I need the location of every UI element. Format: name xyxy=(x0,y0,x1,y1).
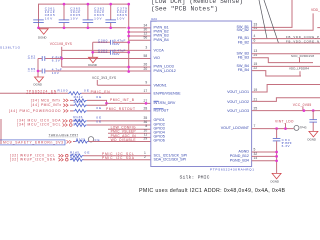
svg-text:27: 27 xyxy=(144,99,148,103)
svg-text:U24: U24 xyxy=(151,17,157,21)
wire SW_B2 out xyxy=(252,13,314,30)
wire bottom ground rail xyxy=(39,27,127,29)
svg-text:26: 26 xyxy=(144,62,148,66)
pin 17 EN/PB/VSENSE xyxy=(144,89,182,95)
svg-text:EN/PB/VSENSE: EN/PB/VSENSE xyxy=(154,92,182,96)
wire SW_B4 out xyxy=(252,65,320,67)
wire C82/C85 ground leg xyxy=(37,59,39,78)
svg-text:VIO: VIO xyxy=(154,56,160,60)
wire stub at right edge near SW_B1 xyxy=(317,27,320,29)
node PMIC_ADC_IN to GPIO5 xyxy=(108,134,151,138)
svg-text:10V: 10V xyxy=(70,17,78,21)
svg-text:C383: C383 xyxy=(98,49,108,53)
wire FB_B2 / node FB_VDD_CORE_N xyxy=(252,40,320,44)
svg-text:VMON1: VMON1 xyxy=(154,84,167,88)
svg-text:PGND_B12: PGND_B12 xyxy=(230,154,249,158)
testpoint TP57 circle xyxy=(88,137,151,142)
svg-text:VINT_LDO: VINT_LDO xyxy=(275,120,294,124)
svg-text:58: 58 xyxy=(144,54,148,58)
resistor R336 xyxy=(74,106,102,113)
wire AGND pin 5 xyxy=(252,151,278,154)
svg-text:56: 56 xyxy=(144,36,148,40)
pin 30 PVIN_B2 xyxy=(144,27,169,33)
svg-text:6.3V: 6.3V xyxy=(282,144,291,148)
svg-text:MCU_SAFETY_ERRORn_3V3: MCU_SAFETY_ERRORn_3V3 xyxy=(3,141,63,145)
svg-text:WD_DISABLE: WD_DISABLE xyxy=(111,138,137,142)
svg-text:PMIC_RSTOUT: PMIC_RSTOUT xyxy=(106,107,135,111)
ground DGND under VCC_0V85 cap xyxy=(308,131,318,141)
wire PGND_B12 pin 32 xyxy=(252,155,278,158)
node MCU_I2C0_SCL row xyxy=(17,122,151,126)
resistor R145 xyxy=(70,151,90,158)
svg-text:PMIC_POWERGOOD: PMIC_POWERGOOD xyxy=(20,109,62,113)
capacitor C365 xyxy=(59,4,81,28)
pin 20 PVIN_LDO12 xyxy=(144,67,176,73)
svg-text:TP43: TP43 xyxy=(300,125,307,129)
svg-text:VOUT_LDO3: VOUT_LDO3 xyxy=(227,109,249,113)
node MCU_I2C0_SDA row xyxy=(17,118,151,122)
svg-text:FB_B2: FB_B2 xyxy=(238,41,249,45)
svg-text:29: 29 xyxy=(144,137,148,141)
pin 14 PGND_B34 xyxy=(230,156,258,162)
pin 25 VOUT_LDO3 xyxy=(227,107,257,113)
svg-text:SDA_I2C1/SDI_SPI: SDA_I2C1/SDI_SPI xyxy=(154,157,187,161)
svg-text:DGND: DGND xyxy=(38,36,47,40)
svg-text:FB_B1: FB_B1 xyxy=(238,36,249,40)
svg-text:C380: C380 xyxy=(98,39,108,43)
node PMIC_POWERGOOD row xyxy=(9,109,151,113)
wire PVIN_B3 feed xyxy=(129,35,151,37)
wire PVIN_B4 feed xyxy=(129,39,151,41)
pin 56 PVIN_B4 xyxy=(144,36,169,42)
svg-text:9: 9 xyxy=(145,81,147,85)
pin 3 VCCA xyxy=(145,45,164,52)
capacitor C380 xyxy=(93,39,129,46)
pin 6 FB_B2 xyxy=(238,38,256,44)
svg-text:GPIO6: GPIO6 xyxy=(154,139,165,143)
junction dots PVIN feed xyxy=(127,27,130,38)
svg-text:DGND: DGND xyxy=(34,83,43,87)
svg-text:3: 3 xyxy=(145,45,147,49)
svg-text:0E: 0E xyxy=(96,95,101,99)
svg-text:PVIN_B4: PVIN_B4 xyxy=(154,38,169,42)
pin 12 PVIN_B3 xyxy=(144,31,169,37)
svg-text:FB_VDD_CORE_P: FB_VDD_CORE_P xyxy=(286,35,319,39)
testpoint TP43 xyxy=(294,125,307,130)
svg-text:[34]: [34] xyxy=(17,122,25,126)
wire PGND_B34 pin 14 xyxy=(252,159,278,162)
svg-text:PMIC uses default I2C1 ADDR: 0: PMIC uses default I2C1 ADDR: 0x48,0x49, … xyxy=(139,188,285,194)
node PMIC_INTx row xyxy=(31,103,107,107)
svg-text:DGND: DGND xyxy=(271,179,280,183)
capacitor C383 xyxy=(93,49,129,56)
svg-text:[34]: [34] xyxy=(31,98,39,102)
svg-text:C85: C85 xyxy=(28,67,36,71)
svg-text:VOUT_LDOVINT: VOUT_LDOVINT xyxy=(221,126,250,130)
svg-text:R342: R342 xyxy=(74,95,83,99)
wire VIO from VCC1V8_SYS to pin 58 xyxy=(62,58,151,60)
svg-text:WKUP_I2C0_SDA: WKUP_I2C0_SDA xyxy=(20,158,56,162)
capacitor C82 xyxy=(28,54,62,62)
pin 7 VOUT_LDOVINT xyxy=(221,124,256,130)
resistor R136 xyxy=(73,115,101,123)
junction dot INT merge xyxy=(105,102,108,105)
ground DGND under C380/C383 xyxy=(88,57,97,67)
svg-text:VCC_3V3_SYS: VCC_3V3_SYS xyxy=(92,76,116,80)
svg-text:VOUT_LDO2: VOUT_LDO2 xyxy=(227,100,249,104)
svg-text:VDD_LPDDR4: VDD_LPDDR4 xyxy=(289,67,309,71)
svg-text:0E: 0E xyxy=(96,119,101,123)
svg-text:R100: R100 xyxy=(58,88,68,92)
wire PVIN_B1 feed xyxy=(129,27,151,29)
resistor R342 xyxy=(74,95,102,102)
resistor R335 xyxy=(74,100,88,107)
svg-text:PVIN_LDO12: PVIN_LDO12 xyxy=(154,69,176,73)
pin 19 VOUT_LDO1 xyxy=(227,88,257,94)
svg-text:10V: 10V xyxy=(52,71,60,75)
pin 4 FB_B1 xyxy=(238,34,256,40)
wire top power rail xyxy=(39,4,129,40)
pin 10 GPIO4 xyxy=(144,128,165,134)
pin 31 SW_B2 xyxy=(236,26,257,32)
node TPS65224_EN / PMIC_EN enable wire xyxy=(0,90,151,94)
wire VOUT_LDO1 out xyxy=(252,85,320,93)
svg-text:PMIC_INT_B: PMIC_INT_B xyxy=(110,98,135,102)
capacitor on VCC_0V85 rail xyxy=(309,111,317,132)
svg-text:[44]: [44] xyxy=(31,103,39,107)
svg-text:0E: 0E xyxy=(84,88,89,92)
svg-text:4: 4 xyxy=(254,34,256,38)
svg-text:DGND: DGND xyxy=(88,63,97,67)
svg-text:17: 17 xyxy=(144,89,148,93)
pin 22 FB_B4 xyxy=(238,66,258,72)
svg-text:FB_B4: FB_B4 xyxy=(238,68,249,72)
svg-text:PMIC_EN: PMIC_EN xyxy=(91,90,111,94)
svg-text:19: 19 xyxy=(254,88,258,92)
wire FB_B1 / node FB_VDD_CORE_P xyxy=(252,35,320,39)
svg-text:VCC1V8_SYS: VCC1V8_SYS xyxy=(50,42,73,46)
pin 58 VIO xyxy=(144,54,160,60)
pin 32 PGND_B12 xyxy=(230,152,258,158)
wire SW_B3 out xyxy=(252,53,320,55)
node VCC1V8_SYS label xyxy=(50,42,73,67)
svg-text:MCU_I2C0_SCL: MCU_I2C0_SCL xyxy=(28,122,61,126)
svg-text:DGND: DGND xyxy=(308,137,317,141)
wire FB_B3 / node SOC_DVDD1V8 xyxy=(252,54,315,63)
capacitor C379 xyxy=(105,4,127,28)
node PMIC_VSLEEP to GPIO4 xyxy=(108,130,151,134)
svg-text:AGND: AGND xyxy=(238,150,249,154)
wire remote sense diagonal 2 xyxy=(264,0,279,43)
svg-text:2: 2 xyxy=(144,155,146,159)
svg-text:MCU_INTx: MCU_INTx xyxy=(41,98,60,102)
svg-text:10V: 10V xyxy=(45,17,53,21)
op-amp/IC U24 PMIC body xyxy=(151,17,252,166)
wire C380/C383 ground leg xyxy=(92,42,94,57)
pin 9 VMON1 xyxy=(145,81,166,88)
svg-text:10V: 10V xyxy=(94,17,102,21)
svg-text:PMIC_INTx: PMIC_INTx xyxy=(41,103,61,107)
svg-text:R146: R146 xyxy=(70,155,79,159)
svg-text:0E: 0E xyxy=(96,106,101,110)
wire VMON1 xyxy=(97,84,151,86)
resistor R137 xyxy=(73,119,101,127)
svg-text:0E: 0E xyxy=(85,151,90,155)
svg-text:R145: R145 xyxy=(70,151,79,155)
capacitor C85 xyxy=(28,67,151,75)
svg-text:SW_B2: SW_B2 xyxy=(236,28,249,32)
pin 28 nRSTOUT xyxy=(144,106,170,112)
svg-text:10V: 10V xyxy=(117,17,125,21)
node MCU_INTx row xyxy=(31,98,151,103)
pin 15 SW_B4 xyxy=(236,62,257,68)
wire VOUT_LDOVINT / node VINT_LDO xyxy=(252,120,294,130)
node WKUP_I2C0_SDA row xyxy=(10,158,151,162)
pin 11 GPIO5 xyxy=(144,132,165,138)
junction dot VIO/C82 xyxy=(60,57,63,60)
svg-text:FB_VDD_CORE_N: FB_VDD_CORE_N xyxy=(286,40,319,44)
pin 29 GPIO6 xyxy=(144,137,165,143)
ground DGND under cap bank xyxy=(38,29,48,40)
node WKUP_I2C0_SCL row xyxy=(10,154,151,158)
capacitor C84 xyxy=(273,129,292,149)
svg-text:VDD_: VDD_ xyxy=(311,8,320,12)
pin 33 SW_B1 xyxy=(236,23,257,29)
pin 27 nINT/EN_DRV xyxy=(144,99,176,105)
wire VCCA from VCC1V8_SYS to pin 3 xyxy=(62,49,151,51)
svg-text:20: 20 xyxy=(144,67,148,71)
pin 13 SW_B3 xyxy=(236,49,257,55)
svg-text:6.3V: 6.3V xyxy=(52,58,61,62)
pin 26 PVIN_LDO3 xyxy=(144,62,174,68)
svg-text:R125: R125 xyxy=(76,138,85,142)
svg-text:Silk: PMIC: Silk: PMIC xyxy=(180,175,210,181)
junction dots top rail xyxy=(63,3,130,6)
ground DGND bottom right xyxy=(271,173,282,183)
pin 2 SDA_I2C1/SDI_SPI xyxy=(144,155,186,161)
pin 36 GPIO2 xyxy=(144,120,165,126)
svg-text:R137: R137 xyxy=(73,119,82,123)
svg-text:VCC_0V85: VCC_0V85 xyxy=(293,103,312,107)
pin 34 PVIN_B1 xyxy=(144,23,169,29)
wire C380/C383 right leg to VIO rail xyxy=(128,40,130,71)
svg-text:VOUT_LDO1: VOUT_LDO1 xyxy=(227,90,249,94)
svg-text:FB_B3: FB_B3 xyxy=(238,55,249,59)
svg-text:PMIC_I2C_SDA: PMIC_I2C_SDA xyxy=(102,156,135,160)
wire analog ground rail xyxy=(276,141,278,173)
wire VOUT_LDO3 / node VCC_0V85 xyxy=(252,103,320,112)
svg-text:C82: C82 xyxy=(28,54,36,58)
svg-text:SOC_DVDD1V8: SOC_DVDD1V8 xyxy=(291,54,314,58)
svg-text:S138LT1G: S138LT1G xyxy=(0,46,21,50)
wire PVIN_LDO3 from VCC1V8_SYS xyxy=(62,66,151,68)
capacitor C382 xyxy=(83,4,105,28)
svg-text:[32]: [32] xyxy=(10,158,18,162)
node LOW_CONFIG to GPIO3 xyxy=(108,126,151,130)
svg-text:(See "PCB Notes"): (See "PCB Notes") xyxy=(151,5,218,12)
pin 8 GPIO3 xyxy=(145,124,164,130)
node VCC_3V3_SYS label xyxy=(92,76,116,85)
ground DGND under C82/C85 xyxy=(34,77,44,87)
junction dots PVIN vertical lower xyxy=(127,66,130,69)
svg-text:5: 5 xyxy=(254,147,256,151)
wire left-edge vertical (cropped) xyxy=(0,119,2,144)
svg-text:10V: 10V xyxy=(114,52,120,56)
svg-text:THRU-HOLE TP57: THRU-HOLE TP57 xyxy=(49,133,79,137)
svg-text:R335: R335 xyxy=(74,100,83,104)
svg-text:TPS65224_EN: TPS65224_EN xyxy=(26,90,57,94)
capacitor C361 xyxy=(33,4,55,28)
svg-text:VCCA: VCCA xyxy=(154,49,165,53)
svg-text:PVIN_LDO3: PVIN_LDO3 xyxy=(154,65,174,69)
resistor R146 xyxy=(70,155,84,161)
svg-text:PTPS6522430RAHRQ1: PTPS6522430RAHRQ1 xyxy=(210,167,254,171)
pin 21 VOUT_LDO2 xyxy=(227,98,257,104)
wire VOUT_LDO2 out xyxy=(252,98,320,102)
pin 35 GPIO1 xyxy=(144,116,165,122)
pin 5 AGND xyxy=(238,147,255,153)
wire FB_B4 / node VDD_LPDDR4 xyxy=(252,67,310,76)
wire remote sense diagonal 1 xyxy=(259,0,267,39)
node MCU_SAFETY_ERRORn_3V3 boxed label xyxy=(0,140,75,145)
pin 24 FB_B3 xyxy=(238,53,258,59)
wire PVIN_B2 feed xyxy=(129,31,151,33)
svg-text:28: 28 xyxy=(144,106,148,110)
svg-text:[44]: [44] xyxy=(9,109,17,113)
svg-text:PGND_B34: PGND_B34 xyxy=(230,158,249,162)
wire SW_B1 out xyxy=(252,0,292,27)
resistor R125 xyxy=(75,138,100,143)
junction dots bottom rail xyxy=(37,26,112,29)
svg-text:7: 7 xyxy=(254,124,256,128)
svg-text:10V: 10V xyxy=(114,42,120,46)
pin 1 SCL_I2C1/SCK_SPI xyxy=(144,151,187,157)
resistor R100 xyxy=(58,88,90,95)
